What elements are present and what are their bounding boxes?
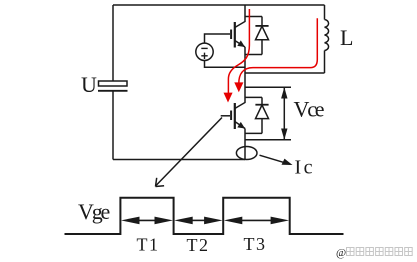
diode D1 bottom wire [245, 54, 262, 56]
source V1 return wire [205, 61, 246, 68]
diode D1 anode wire [261, 40, 263, 55]
diode D2 anode wire [261, 119, 263, 134]
T2 left arrowhead [174, 217, 193, 225]
T1 left arrowhead [121, 217, 140, 225]
svg-text:T2: T2 [187, 235, 210, 255]
svg-text:@: @ [336, 247, 346, 259]
transistor Q1 gate bar [230, 30, 232, 40]
wire left rail lower [112, 91, 114, 160]
red current path 2 arrowhead [234, 82, 243, 92]
transistor Q2 emitter [235, 122, 245, 129]
transistor Q2 emitter arrowhead [237, 122, 245, 129]
T2 dimension line [191, 219, 206, 221]
transistor Q2 gate lead [221, 115, 230, 117]
svg-text:L: L [340, 25, 353, 50]
T3 right arrowhead [271, 217, 290, 225]
svg-text:Vge: Vge [78, 199, 109, 224]
T1 dimension line [138, 219, 156, 221]
diode D1 cathode wire [261, 17, 263, 27]
wire right rail bottom [324, 51, 326, 74]
Vge waveform trace [65, 198, 344, 234]
transistor Q1 emitter [235, 41, 245, 48]
svg-text:T3: T3 [244, 234, 267, 254]
transistor Q1 emitter wire [244, 47, 246, 73]
svg-text:Vce: Vce [294, 96, 324, 121]
transistor Q2 emitter wire [244, 129, 246, 160]
red current path 2 [239, 18, 317, 83]
Vce arrow up head [281, 87, 287, 98]
red current path 1 arrowhead [224, 93, 233, 103]
source V1 plus sign [201, 53, 207, 59]
wire mid rail [245, 72, 325, 74]
current probe ellipse [236, 147, 257, 160]
wire bottom rail [113, 159, 245, 161]
svg-text:U: U [81, 72, 97, 97]
svg-text:Ic: Ic [295, 157, 316, 179]
diode D1 triangle [256, 26, 269, 40]
source V1 minus sign [201, 47, 207, 49]
Ic pointer line [260, 155, 291, 164]
red current path 1 [228, 9, 249, 94]
diode D2 cathode wire [261, 97, 263, 105]
capacitor U bottom plate [98, 90, 128, 92]
diode D2 cathode bar [255, 104, 268, 106]
diode D1 cathode bar [255, 25, 268, 27]
transistor Q1 gate lead [205, 34, 231, 43]
Vce arrow down head [281, 129, 287, 140]
wire left rail upper [112, 5, 114, 81]
Vce arrow shaft [283, 88, 285, 139]
transistor Q2 gate bar [230, 111, 232, 121]
source V1 circle [196, 43, 213, 60]
inductor L coil [325, 20, 329, 51]
transistor Q1 collector wire [235, 5, 245, 28]
Vce top tick [245, 86, 291, 88]
Vce bottom tick [245, 139, 291, 141]
wire right rail top [324, 5, 326, 20]
transistor Q2 body bar [234, 103, 236, 129]
transistor Q1 body bar [234, 22, 236, 48]
diode D2 triangle [256, 105, 269, 119]
gate waveform pointer arrowhead [156, 178, 165, 187]
capacitor U top plate [99, 81, 128, 86]
T1 right arrowhead [155, 217, 174, 225]
diode D1 top wire [245, 16, 262, 18]
wire top rail [113, 4, 325, 6]
diode D2 top wire [245, 96, 262, 98]
transistor Q1 emitter arrowhead [237, 40, 245, 47]
diode D2 bottom wire [245, 132, 262, 134]
transistor Q2 collector wire [235, 73, 245, 109]
T3 left arrowhead [224, 217, 243, 225]
svg-text:T1: T1 [137, 235, 160, 255]
T3 dimension line [240, 219, 273, 221]
gate waveform pointer line [156, 118, 222, 186]
T2 right arrowhead [204, 217, 223, 225]
Ic pointer arrowhead [282, 159, 293, 165]
